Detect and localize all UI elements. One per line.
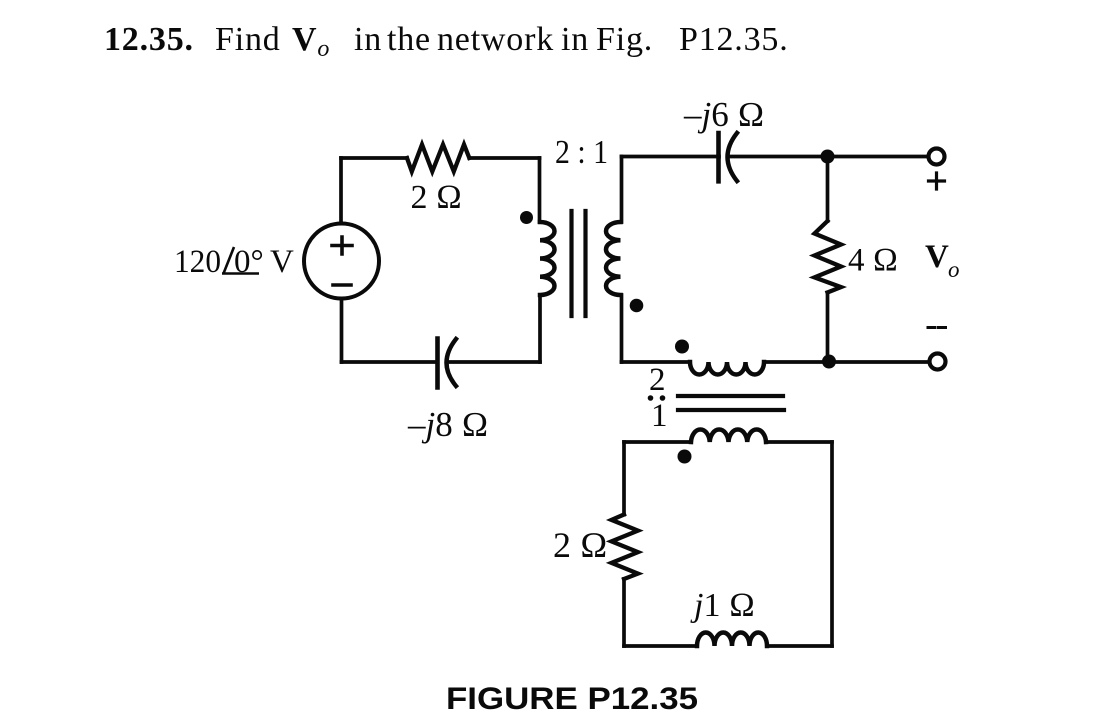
svg-text:1: 1 [651, 398, 668, 434]
wire: mid loop top left segment [622, 155, 720, 159]
svg-text:12.35.FindVointhenetworkinFig.: 12.35.FindVointhenetworkinFig.P12.35. [104, 21, 789, 62]
capacitor C1 flat plate [435, 339, 440, 388]
resistor R1 2ohm zigzag [407, 145, 469, 172]
svg-text:–j8 Ω: –j8 Ω [407, 405, 488, 444]
wire: bottom loop bottom left segment [624, 644, 697, 648]
T2 ratio colon dots [648, 395, 654, 401]
wire: mid loop left lower (T1 secondary bottom lead) [620, 295, 624, 362]
source angle underline [222, 272, 259, 275]
wire: bottom loop bottom right segment [767, 644, 832, 648]
svg-text:0°: 0° [234, 244, 264, 280]
wire: loop1 left upper [339, 158, 343, 224]
capacitor C2 curved plate [728, 133, 738, 181]
capacitor C1 curved plate [447, 339, 457, 386]
wire: loop1 left lower [340, 299, 344, 363]
terminal bottom output circle [930, 354, 946, 370]
wire: bottom loop top right segment [766, 440, 832, 444]
T1 secondary polarity dot [630, 299, 644, 313]
wire: loop1 right lower [538, 295, 542, 362]
svg-text:2: 2 [649, 362, 666, 398]
terminal top output circle [929, 149, 945, 165]
T2 secondary polarity dot [678, 450, 692, 464]
transformer T2 secondary coil [691, 429, 766, 442]
svg-text:o: o [948, 257, 960, 282]
T2 primary polarity dot [675, 340, 689, 354]
wire: loop1 bottom left segment [342, 360, 438, 364]
voltage source plus sign [332, 237, 352, 254]
svg-text:V: V [270, 244, 294, 280]
svg-text:120: 120 [174, 244, 221, 280]
source angle slash [224, 247, 235, 274]
svg-text:–j6 Ω: –j6 Ω [683, 95, 764, 134]
T1 primary polarity dot [520, 211, 533, 224]
wire: loop1 top left segment [341, 156, 407, 160]
wire: bottom loop top left segment [624, 440, 691, 444]
transformer T1 core lines [572, 211, 586, 316]
capacitor C2 flat plate [716, 133, 721, 181]
svg-text:FIGURE P12.35: FIGURE P12.35 [446, 680, 698, 716]
inductor L1 j1ohm coil [697, 633, 767, 647]
wire: bottom loop left lower lead [622, 579, 626, 646]
resistor R3 2ohm zigzag [612, 515, 639, 580]
voltage source VS1 circle [304, 224, 379, 299]
voltage source minus sign [333, 283, 351, 287]
svg-text:2 Ω: 2 Ω [553, 525, 608, 565]
wire: 4ohm branch upper lead [826, 157, 830, 222]
wire: loop1 bottom right segment [447, 360, 540, 364]
wire: 4ohm branch lower lead [826, 293, 830, 363]
svg-text:2 : 1: 2 : 1 [555, 134, 608, 171]
transformer T2 core lines [678, 396, 784, 410]
transformer T1 primary coil [540, 222, 555, 295]
wire: bottom loop right side [830, 442, 834, 646]
wire: mid loop left upper (T1 secondary top lead) [621, 157, 622, 223]
svg-text:V: V [925, 239, 949, 275]
svg-text:j1 Ω: j1 Ω [690, 587, 755, 624]
wire: mid loop bottom left segment [622, 360, 691, 364]
wire: bottom loop left upper lead [622, 442, 626, 515]
junction node dot top [821, 150, 835, 164]
transformer T1 secondary coil [606, 222, 621, 295]
svg-text:2 Ω: 2 Ω [411, 179, 463, 216]
wire: mid loop top right segment to terminal [729, 155, 928, 159]
transformer T2 primary coil [690, 362, 764, 375]
svg-text:4 Ω: 4 Ω [848, 243, 898, 279]
wire: mid loop bottom right segment to terminal [764, 360, 930, 364]
output minus sign [928, 326, 946, 329]
junction node dot bottom [822, 355, 836, 369]
resistor R2 4ohm zigzag [815, 221, 842, 293]
wire: loop1 top right segment [469, 156, 539, 160]
output plus sign [929, 173, 945, 189]
wire: loop1 right upper (to T1 primary) [538, 158, 542, 222]
